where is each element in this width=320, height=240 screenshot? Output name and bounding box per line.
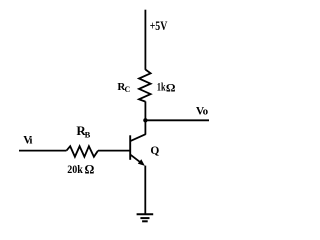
svg-text:+5V: +5V <box>150 19 168 33</box>
svg-text:B: B <box>85 129 91 139</box>
svg-text:Ω: Ω <box>85 163 95 177</box>
svg-text:1k: 1k <box>157 81 166 93</box>
svg-text:Ω: Ω <box>166 80 176 94</box>
svg-text:C: C <box>125 85 131 94</box>
svg-text:Q: Q <box>150 145 159 157</box>
svg-text:o: o <box>203 105 209 117</box>
svg-text:20k: 20k <box>67 162 83 176</box>
svg-text:i: i <box>29 135 32 147</box>
